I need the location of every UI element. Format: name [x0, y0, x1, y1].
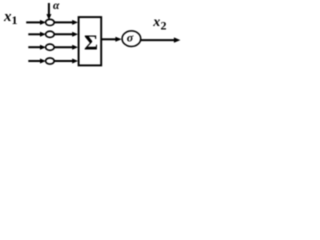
wire input row 3 [28, 46, 40, 48]
node circle row 4 [46, 58, 55, 64]
arrowhead row 4 [40, 59, 46, 64]
node circle row 1 [46, 19, 55, 25]
svg-text:x1: x1 [3, 9, 18, 27]
node circle row 2 [46, 31, 55, 37]
wire row 4 to box [54, 60, 73, 62]
node circle row 3 [46, 44, 55, 50]
svg-text:σ: σ [127, 30, 134, 44]
svg-text:x2: x2 [152, 15, 166, 33]
arrowhead row 1 [40, 20, 46, 25]
wire row 3 to box [54, 46, 73, 48]
activation node circle [122, 31, 141, 47]
wire input row 1 [26, 21, 40, 23]
wire alpha vertical [48, 3, 50, 15]
arrowhead row 4 to box [72, 59, 78, 64]
wire input row 2 [28, 33, 40, 35]
arrowhead row 1 to box [72, 20, 78, 25]
wire row 1 to box [54, 21, 73, 23]
summation block [79, 17, 102, 65]
arrowhead alpha down [46, 14, 51, 20]
arrowhead output [174, 37, 181, 42]
wire row 2 to box [54, 33, 73, 35]
svg-text:α: α [53, 0, 60, 12]
arrowhead box to sigma [115, 37, 121, 42]
arrowhead row 3 to box [72, 45, 78, 50]
svg-text:Σ: Σ [84, 31, 98, 55]
arrowhead row 2 [40, 32, 46, 37]
wire input row 4 [28, 60, 40, 62]
wire output [141, 39, 175, 41]
arrowhead row 2 to box [72, 32, 78, 37]
wire box to sigma [101, 38, 116, 40]
arrowhead row 3 [40, 45, 46, 50]
